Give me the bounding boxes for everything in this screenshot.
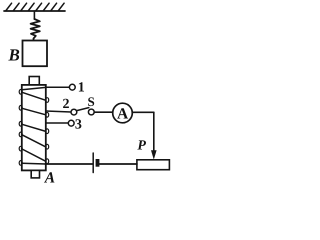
coil right bulge 4 bbox=[46, 144, 49, 149]
wire switch to ammeter bbox=[94, 111, 113, 113]
tap wire to terminal 3 bbox=[46, 122, 69, 124]
coil right bulge 2 bbox=[46, 113, 49, 118]
ceiling line bbox=[4, 10, 65, 12]
wire from ceiling to spring bbox=[33, 11, 35, 19]
wiper arrow head P bbox=[151, 150, 157, 159]
svg-text:A: A bbox=[44, 170, 55, 185]
coil strand turn 1 bbox=[22, 92, 46, 100]
coil strand turn 3 bbox=[22, 124, 46, 131]
wire battery to rheostat bbox=[99, 163, 136, 165]
spring bbox=[31, 19, 40, 41]
coil left bulge 3 bbox=[19, 122, 22, 127]
svg-text:P: P bbox=[137, 139, 146, 154]
terminal 3 circle bbox=[68, 120, 74, 126]
tap wire to terminal 2 bbox=[46, 111, 71, 112]
ceiling hatch strokes bbox=[6, 3, 64, 10]
iron core bottom knob bbox=[31, 170, 39, 178]
tap wire to terminal 1 bbox=[46, 86, 70, 88]
block B bbox=[23, 41, 48, 67]
ammeter U1 circle bbox=[113, 103, 133, 123]
wire corner down to wiper arrow bbox=[153, 112, 155, 150]
coil left bulge 6 bbox=[19, 161, 22, 166]
coil strand turn 2 bbox=[22, 108, 46, 115]
coil strand turn 4 bbox=[22, 135, 46, 147]
svg-text:B: B bbox=[8, 46, 20, 65]
iron core A (solenoid body) bbox=[22, 85, 46, 170]
coil right bulge 3 bbox=[46, 129, 49, 134]
coil strand turn 6 bbox=[22, 162, 46, 165]
switch S blade bbox=[77, 108, 89, 111]
svg-text:1: 1 bbox=[78, 81, 85, 96]
battery long plate bbox=[92, 153, 94, 173]
svg-text:A: A bbox=[117, 106, 129, 123]
bottom wire solenoid to battery bbox=[45, 163, 92, 165]
iron core top knob bbox=[29, 77, 39, 85]
rheostat R body bbox=[137, 160, 170, 170]
coil strand turn 5 bbox=[22, 149, 46, 161]
coil left bulge 2 bbox=[19, 106, 22, 111]
coil right bulge 5 bbox=[46, 159, 49, 164]
wire ammeter to corner bbox=[132, 111, 154, 113]
svg-text:S: S bbox=[88, 94, 95, 109]
coil left bulge 4 bbox=[19, 132, 22, 137]
svg-text:3: 3 bbox=[75, 118, 82, 133]
svg-text:2: 2 bbox=[63, 97, 70, 112]
terminal 2 circle bbox=[71, 109, 77, 115]
switch S pivot circle bbox=[88, 109, 94, 115]
coil right bulge 1 bbox=[46, 98, 49, 103]
coil strand turn 0 (to tap 1) bbox=[22, 87, 46, 89]
coil left bulge 1 bbox=[19, 90, 22, 95]
terminal 1 circle bbox=[69, 84, 75, 90]
battery short thick plate bbox=[96, 159, 100, 167]
coil left bulge 5 bbox=[19, 146, 22, 151]
